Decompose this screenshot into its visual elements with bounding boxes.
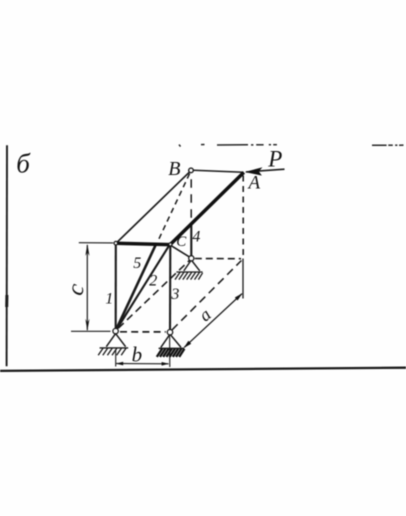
rod 5 (D1 up to beam, toward B) (116, 243, 157, 330)
dimension b right arrow (162, 362, 169, 366)
bottom page border (0, 368, 406, 371)
node D3 circle (189, 256, 194, 261)
node B circle (189, 168, 194, 173)
wire: hidden part of rod 5 from beam to B (dashed) (159, 174, 190, 240)
dimension b left extension line (115, 350, 117, 367)
support D2 ground line (159, 347, 185, 349)
svg-text:1: 1 (105, 290, 113, 307)
short link C-D3 (172, 246, 190, 257)
edge B-E (solid) (117, 172, 190, 242)
wire: hidden vertical edge A-D4 (dashed) (242, 176, 244, 258)
edge B-A (solid) (194, 170, 244, 172)
rod 4 (vertical from beam down to support D3) (190, 224, 192, 257)
dimension c line (86, 245, 88, 330)
svg-text:4: 4 (192, 229, 200, 246)
beam E-C (thick) (116, 243, 170, 244)
dimension c bottom extension line (71, 330, 111, 332)
rod 2 (D1-C) (116, 245, 169, 330)
force P line (246, 169, 285, 172)
svg-text:2: 2 (149, 272, 157, 289)
wire: hidden bottom edge D1-D2 (dashed) (120, 331, 166, 333)
dimension a extension line at D4 (242, 259, 244, 299)
force P arrowhead (245, 167, 263, 175)
support D1 triangle (106, 334, 125, 347)
node C circle (169, 243, 172, 246)
wire: hidden depth edge D1-D3 (dashed) (118, 260, 189, 328)
svg-text:б: б (16, 149, 31, 179)
support D1 hatching (98, 348, 126, 355)
svg-text:b: b (132, 342, 143, 366)
dimension a line (184, 294, 242, 348)
dimension c top arrow (85, 244, 89, 256)
support D3 ground line (176, 271, 202, 273)
top dash-dot border (179, 145, 404, 147)
svg-text:C: C (176, 234, 187, 250)
dimension b line (116, 363, 168, 365)
support D2 triangle (161, 334, 181, 347)
svg-text:B: B (168, 158, 180, 180)
support D2 hatching (dense) (157, 349, 185, 357)
rod 3 (vertical D2-C) (169, 245, 171, 332)
wire: hidden back bottom edge D3-D4 (dashed) (195, 258, 241, 260)
dimension a lower arrow (184, 341, 192, 348)
left page border (6, 145, 8, 366)
svg-text:3: 3 (170, 286, 179, 303)
wire: hidden depth edge D2-D4 (dashed) (172, 261, 241, 330)
wire: hidden vertical edge B-D3 (dashed) (190, 179, 192, 222)
svg-text:5: 5 (133, 255, 141, 272)
rod 1 (vertical D1-E) (115, 244, 117, 331)
node D1 circle (113, 328, 118, 333)
beam C-A (thick) (170, 172, 244, 245)
node E circle (114, 241, 118, 245)
node D2 circle (167, 330, 172, 335)
dimension c bottom arrow (85, 319, 89, 331)
support D3 triangle (184, 260, 200, 271)
dimension b right extension line (169, 334, 171, 367)
dimension c top extension line (79, 242, 113, 244)
svg-text:P: P (267, 146, 282, 171)
dimension b left arrow (116, 362, 123, 366)
svg-text:A: A (246, 172, 260, 193)
dimension a upper arrow (235, 293, 243, 300)
support D1 ground line (100, 347, 129, 349)
support D3 hatching (175, 272, 203, 279)
